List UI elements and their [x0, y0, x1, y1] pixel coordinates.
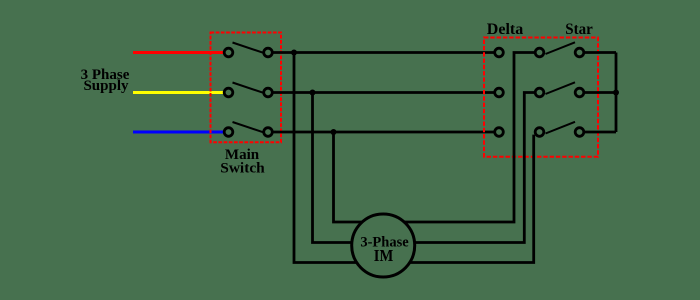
wire phase Y from main switch to delta contact [272, 91, 494, 94]
switch SW1 pole 3 left contact [224, 128, 233, 137]
junction B-phase tap [331, 129, 337, 135]
common contact M1 [535, 48, 544, 57]
wire motor terminal V2 to common contact M2 [415, 93, 535, 243]
svg-text:IM: IM [374, 246, 394, 265]
star switch blade 3 [546, 122, 576, 134]
svg-text:Switch: Switch [220, 161, 265, 177]
junction R-phase tap [291, 50, 297, 56]
label: Main Switch [220, 147, 265, 177]
star contact S3 [575, 128, 584, 137]
svg-text:Star: Star [565, 21, 593, 38]
wire star point shorting bar [615, 53, 618, 133]
switch SW1 pole 1 left contact [224, 48, 233, 57]
switch SW1 pole 3 right contact [264, 128, 273, 137]
wire Y-phase supply (yellow) [133, 91, 224, 94]
common contact M3 [535, 128, 544, 137]
wire star contact S3 to star bar [585, 131, 616, 134]
wire R-phase down to motor terminal U1 [294, 53, 357, 263]
common contact M2 [535, 88, 544, 97]
wire star contact S2 to star bar [585, 91, 618, 94]
switch SW1 pole 2 blade [233, 83, 264, 93]
delta contact D2 [495, 88, 504, 97]
switch SW1 pole 1 blade [233, 43, 264, 53]
star contact S2 [575, 88, 584, 97]
wire B-phase supply (blue) [133, 131, 224, 134]
switch SW1 pole 1 right contact [264, 48, 273, 57]
wire R-phase supply (red) [133, 51, 224, 54]
Delta/Star switch enclosure (dashed red box) [484, 38, 598, 157]
svg-text:Delta: Delta [487, 21, 523, 38]
motor label [360, 235, 409, 266]
switch SW1 pole 3 blade [233, 122, 264, 132]
wire Y-phase down to motor terminal V1 [313, 93, 353, 243]
star contact S1 [575, 48, 584, 57]
wire phase R from main switch to delta contact [272, 51, 494, 54]
junction Y-phase tap [310, 90, 316, 96]
wire B-phase down to motor terminal W1 [334, 132, 363, 222]
Main Switch enclosure (dashed red box) [211, 33, 282, 143]
star switch blade 2 [546, 82, 576, 94]
wire star contact S1 to star bar [585, 51, 616, 54]
wire motor terminal U2 to common contact M1 [405, 53, 535, 223]
node label: 3 Phase Supply [81, 67, 130, 94]
star switch blade 1 [546, 42, 576, 54]
delta contact D1 [495, 48, 504, 57]
delta contact D3 [495, 128, 504, 137]
switch SW1 pole 2 left contact [224, 88, 233, 97]
junction star bar middle [613, 90, 619, 96]
motor M1 (3-Phase IM) [352, 214, 415, 277]
switch SW1 pole 2 right contact [264, 88, 273, 97]
wire phase B from main switch to delta contact [272, 131, 494, 134]
wire motor terminal W2 to common contact M3 [410, 135, 534, 263]
svg-text:Supply: Supply [83, 78, 129, 94]
